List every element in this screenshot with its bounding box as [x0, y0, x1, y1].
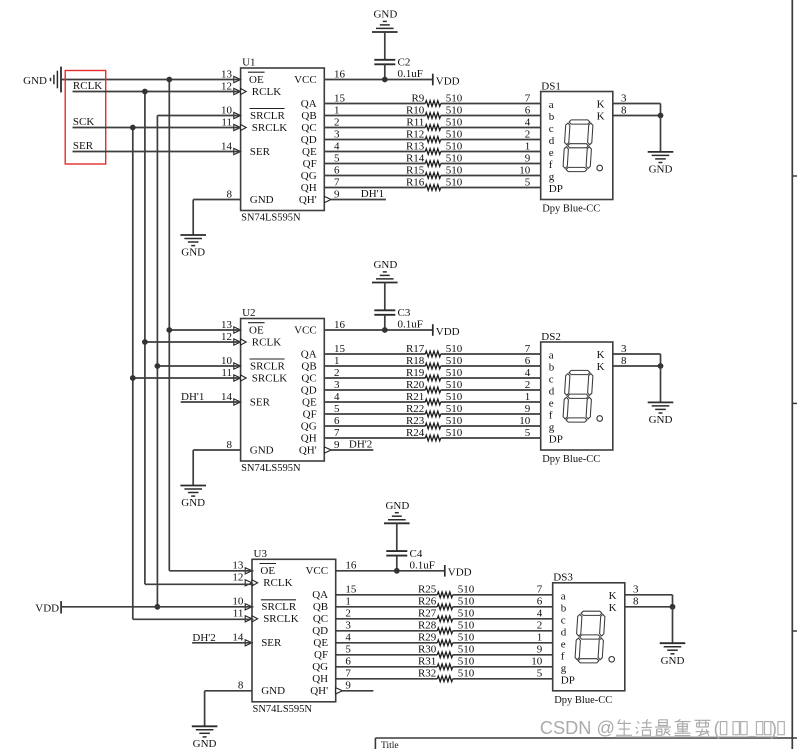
svg-text:Dpy Blue-CC: Dpy Blue-CC — [542, 454, 600, 465]
svg-text:R12: R12 — [406, 128, 424, 140]
svg-text:QE: QE — [302, 146, 317, 158]
svg-text:7: 7 — [334, 176, 340, 188]
svg-text:e: e — [549, 147, 554, 159]
svg-text:C3: C3 — [398, 307, 411, 319]
svg-text:510: 510 — [446, 391, 463, 403]
svg-text:K: K — [609, 602, 617, 614]
svg-text:2: 2 — [537, 620, 543, 632]
svg-text:SRCLR: SRCLR — [250, 110, 286, 122]
svg-text:K: K — [597, 361, 605, 373]
svg-text:Title: Title — [381, 741, 399, 749]
svg-text:U1: U1 — [242, 57, 255, 69]
svg-text:a: a — [561, 590, 566, 602]
svg-text:2: 2 — [345, 608, 351, 620]
svg-text:f: f — [549, 159, 553, 171]
svg-text:OE: OE — [249, 324, 264, 336]
svg-text:1: 1 — [525, 391, 531, 403]
svg-text:GND: GND — [181, 247, 205, 259]
svg-text:RCLK: RCLK — [263, 577, 292, 589]
svg-text:SRCLR: SRCLR — [250, 360, 286, 372]
svg-text:6: 6 — [525, 104, 531, 116]
svg-text:6: 6 — [537, 596, 543, 608]
svg-text:510: 510 — [458, 668, 475, 680]
svg-text:13: 13 — [221, 319, 233, 331]
svg-text:510: 510 — [446, 140, 463, 152]
svg-text:12: 12 — [232, 572, 243, 584]
svg-text:16: 16 — [345, 560, 357, 572]
svg-text:K: K — [597, 349, 605, 361]
svg-text:0.1uF: 0.1uF — [410, 560, 435, 572]
svg-text:QF: QF — [314, 649, 328, 661]
svg-text:6: 6 — [334, 164, 340, 176]
svg-text:QF: QF — [303, 158, 317, 170]
svg-text:1: 1 — [525, 140, 531, 152]
svg-text:9: 9 — [345, 680, 351, 692]
svg-text:RCLK: RCLK — [73, 80, 102, 92]
svg-text:3: 3 — [334, 379, 340, 391]
svg-text:SRCLR: SRCLR — [261, 601, 297, 613]
svg-text:510: 510 — [446, 116, 463, 128]
svg-text:R14: R14 — [406, 152, 425, 164]
svg-text:K: K — [597, 99, 605, 111]
svg-text:RCLK: RCLK — [252, 336, 281, 348]
svg-text:QA: QA — [301, 348, 317, 360]
svg-text:DS2: DS2 — [541, 331, 561, 343]
svg-text:13: 13 — [221, 68, 233, 80]
svg-text:SRCLK: SRCLK — [263, 613, 299, 625]
svg-text:GND: GND — [373, 259, 397, 271]
svg-text:510: 510 — [446, 415, 463, 427]
svg-text:1: 1 — [345, 596, 351, 608]
svg-text:11: 11 — [221, 367, 232, 379]
svg-text:CSDN @: CSDN @ — [540, 718, 615, 738]
svg-text:0.1uF: 0.1uF — [398, 319, 423, 331]
svg-text:510: 510 — [446, 427, 463, 439]
svg-text:DP: DP — [549, 183, 563, 195]
svg-text:QH: QH — [301, 182, 317, 194]
svg-text:DS3: DS3 — [553, 572, 573, 584]
svg-text:GND: GND — [385, 500, 409, 512]
svg-text:C2: C2 — [398, 57, 411, 69]
svg-text:U3: U3 — [254, 548, 268, 560]
svg-text:8: 8 — [227, 439, 233, 451]
svg-text:510: 510 — [458, 632, 475, 644]
svg-text:8: 8 — [621, 104, 627, 116]
svg-text:4: 4 — [525, 367, 531, 379]
svg-text:QF: QF — [303, 408, 317, 420]
svg-text:QA: QA — [301, 98, 317, 110]
svg-text:10: 10 — [221, 104, 233, 116]
svg-text:U2: U2 — [242, 307, 255, 319]
svg-text:9: 9 — [334, 439, 340, 451]
svg-text:R13: R13 — [406, 140, 425, 152]
svg-text:510: 510 — [446, 355, 463, 367]
svg-text:VDD: VDD — [436, 326, 460, 338]
svg-text:b: b — [549, 111, 555, 123]
svg-text:6: 6 — [525, 355, 531, 367]
svg-text:DH'2: DH'2 — [192, 632, 215, 644]
svg-text:15: 15 — [334, 92, 346, 104]
svg-text:10: 10 — [232, 596, 244, 608]
svg-text:QC: QC — [301, 372, 316, 384]
svg-text:Dpy Blue-CC: Dpy Blue-CC — [554, 695, 612, 706]
svg-text:16: 16 — [334, 68, 346, 80]
svg-text:g: g — [549, 422, 555, 434]
svg-text:QH: QH — [301, 432, 317, 444]
svg-text:R10: R10 — [406, 104, 425, 116]
svg-text:QB: QB — [301, 110, 316, 122]
svg-text:510: 510 — [446, 92, 463, 104]
svg-text:3: 3 — [345, 620, 351, 632]
svg-text:e: e — [561, 638, 566, 650]
svg-text:15: 15 — [345, 584, 357, 596]
svg-text:SER: SER — [250, 146, 271, 158]
svg-text:c: c — [549, 374, 554, 386]
svg-text:GND: GND — [23, 75, 47, 87]
svg-text:SN74LS595N: SN74LS595N — [241, 213, 301, 224]
svg-text:13: 13 — [232, 560, 244, 572]
svg-text:e: e — [549, 398, 554, 410]
svg-text:4: 4 — [334, 140, 340, 152]
svg-text:15: 15 — [334, 343, 346, 355]
svg-text:8: 8 — [238, 680, 244, 692]
svg-text:c: c — [549, 123, 554, 135]
svg-text:510: 510 — [446, 176, 463, 188]
svg-text:14: 14 — [221, 140, 233, 152]
svg-text:R19: R19 — [406, 367, 425, 379]
svg-text:1: 1 — [537, 632, 543, 644]
svg-text:510: 510 — [458, 620, 475, 632]
svg-text:QD: QD — [301, 384, 317, 396]
svg-text:R21: R21 — [406, 391, 424, 403]
svg-text:6: 6 — [334, 415, 340, 427]
svg-text:GND: GND — [193, 738, 217, 749]
svg-text:R17: R17 — [406, 343, 425, 355]
svg-text:b: b — [549, 362, 555, 374]
svg-text:510: 510 — [446, 128, 463, 140]
svg-text:DH'2: DH'2 — [349, 439, 372, 451]
svg-text:SRCLK: SRCLK — [252, 122, 288, 134]
svg-text:GND: GND — [649, 414, 673, 426]
svg-text:3: 3 — [621, 343, 627, 355]
svg-text:R30: R30 — [418, 644, 437, 656]
svg-text:5: 5 — [537, 668, 543, 680]
svg-text:SER: SER — [261, 637, 282, 649]
svg-text:5: 5 — [334, 403, 340, 415]
svg-text:10: 10 — [519, 164, 531, 176]
svg-text:R23: R23 — [406, 415, 425, 427]
svg-text:510: 510 — [458, 644, 475, 656]
svg-text:2: 2 — [525, 128, 531, 140]
svg-text:11: 11 — [221, 116, 232, 128]
svg-text:2: 2 — [334, 116, 340, 128]
svg-text:SCK: SCK — [73, 116, 94, 128]
svg-text:R28: R28 — [418, 620, 437, 632]
svg-text:SER: SER — [73, 140, 94, 152]
svg-text:3: 3 — [334, 128, 340, 140]
svg-text:510: 510 — [446, 379, 463, 391]
svg-text:7: 7 — [537, 584, 543, 596]
svg-text:GND: GND — [250, 444, 274, 456]
svg-text:VCC: VCC — [294, 324, 317, 336]
svg-text:4: 4 — [537, 608, 543, 620]
svg-text:510: 510 — [458, 656, 475, 668]
svg-text:VCC: VCC — [305, 565, 328, 577]
svg-text:QG: QG — [301, 420, 317, 432]
svg-text:510: 510 — [458, 584, 475, 596]
svg-text:f: f — [549, 410, 553, 422]
svg-text:(: ( — [714, 718, 720, 738]
svg-text:DS1: DS1 — [541, 80, 561, 92]
svg-text:4: 4 — [525, 116, 531, 128]
svg-text:SRCLK: SRCLK — [252, 372, 288, 384]
svg-text:d: d — [561, 626, 567, 638]
svg-text:DP: DP — [549, 434, 563, 446]
svg-text:9: 9 — [537, 644, 543, 656]
svg-text:SN74LS595N: SN74LS595N — [241, 463, 301, 474]
svg-text:R31: R31 — [418, 656, 436, 668]
svg-text:QG: QG — [312, 661, 328, 673]
svg-text:R25: R25 — [418, 584, 437, 596]
svg-text:R24: R24 — [406, 427, 425, 439]
svg-text:14: 14 — [221, 391, 233, 403]
svg-text:14: 14 — [232, 632, 244, 644]
svg-text:VCC: VCC — [294, 74, 317, 86]
svg-text:): ) — [771, 718, 777, 738]
svg-text:GND: GND — [649, 164, 673, 176]
svg-text:DP: DP — [561, 674, 575, 686]
svg-text:R15: R15 — [406, 164, 425, 176]
svg-text:5: 5 — [334, 152, 340, 164]
svg-text:QD: QD — [301, 134, 317, 146]
svg-text:510: 510 — [458, 608, 475, 620]
svg-text:QE: QE — [313, 637, 328, 649]
svg-text:DH'1: DH'1 — [361, 188, 384, 200]
svg-text:SN74LS595N: SN74LS595N — [253, 704, 313, 715]
svg-text:GND: GND — [373, 9, 397, 21]
svg-text:DH'1: DH'1 — [181, 391, 204, 403]
svg-text:8: 8 — [227, 188, 233, 200]
svg-text:f: f — [561, 650, 565, 662]
svg-text:b: b — [561, 602, 567, 614]
svg-text:R29: R29 — [418, 632, 437, 644]
svg-text:QH': QH' — [299, 444, 317, 456]
svg-text:R18: R18 — [406, 355, 425, 367]
svg-text:510: 510 — [446, 343, 463, 355]
svg-text:QB: QB — [301, 360, 316, 372]
svg-text:7: 7 — [345, 668, 351, 680]
svg-text:a: a — [549, 350, 554, 362]
svg-text:10: 10 — [221, 355, 233, 367]
svg-text:3: 3 — [621, 92, 627, 104]
svg-text:12: 12 — [221, 80, 232, 92]
svg-text:510: 510 — [446, 367, 463, 379]
svg-text:R22: R22 — [406, 403, 424, 415]
svg-text:GND: GND — [250, 194, 274, 206]
svg-text:VDD: VDD — [35, 602, 59, 614]
svg-text:510: 510 — [458, 596, 475, 608]
svg-text:K: K — [597, 111, 605, 123]
svg-text:16: 16 — [334, 319, 346, 331]
svg-text:1: 1 — [334, 355, 340, 367]
svg-text:g: g — [549, 171, 555, 183]
svg-text:5: 5 — [525, 427, 531, 439]
svg-text:5: 5 — [525, 176, 531, 188]
svg-text:QG: QG — [301, 170, 317, 182]
svg-text:11: 11 — [233, 608, 244, 620]
svg-text:g: g — [561, 662, 567, 674]
svg-text:R27: R27 — [418, 608, 437, 620]
svg-text:c: c — [561, 614, 566, 626]
svg-text:d: d — [549, 135, 555, 147]
svg-text:8: 8 — [621, 355, 627, 367]
svg-text:9: 9 — [525, 152, 531, 164]
svg-text:R20: R20 — [406, 379, 425, 391]
svg-text:VDD: VDD — [436, 75, 460, 87]
svg-text:R11: R11 — [406, 116, 424, 128]
svg-text:7: 7 — [334, 427, 340, 439]
svg-text:GND: GND — [181, 497, 205, 509]
svg-text:4: 4 — [334, 391, 340, 403]
svg-text:C4: C4 — [410, 548, 423, 560]
svg-text:QH: QH — [312, 673, 328, 685]
svg-text:QE: QE — [302, 396, 317, 408]
svg-text:1: 1 — [334, 104, 340, 116]
svg-text:2: 2 — [525, 379, 531, 391]
svg-text:3: 3 — [633, 584, 639, 596]
svg-text:6: 6 — [345, 656, 351, 668]
svg-text:10: 10 — [531, 656, 543, 668]
svg-text:QC: QC — [301, 122, 316, 134]
svg-text:GND: GND — [261, 685, 285, 697]
svg-text:Dpy Blue-CC: Dpy Blue-CC — [542, 204, 600, 215]
svg-text:QB: QB — [313, 601, 328, 613]
svg-text:VDD: VDD — [448, 567, 472, 579]
svg-text:2: 2 — [334, 367, 340, 379]
svg-text:7: 7 — [525, 92, 531, 104]
svg-text:GND: GND — [661, 655, 685, 667]
svg-text:QD: QD — [312, 625, 328, 637]
svg-text:R32: R32 — [418, 668, 436, 680]
svg-text:8: 8 — [633, 596, 639, 608]
svg-text:R16: R16 — [406, 176, 425, 188]
svg-text:510: 510 — [446, 104, 463, 116]
svg-text:RCLK: RCLK — [252, 86, 281, 98]
svg-text:7: 7 — [525, 343, 531, 355]
svg-text:0.1uF: 0.1uF — [398, 68, 423, 80]
svg-text:9: 9 — [525, 403, 531, 415]
svg-text:QC: QC — [313, 613, 328, 625]
svg-text:QA: QA — [312, 589, 328, 601]
svg-text:5: 5 — [345, 644, 351, 656]
svg-text:4: 4 — [345, 632, 351, 644]
svg-text:R9: R9 — [411, 92, 424, 104]
svg-text:9: 9 — [334, 188, 340, 200]
svg-text:QH': QH' — [299, 194, 317, 206]
svg-text:510: 510 — [446, 152, 463, 164]
svg-text:QH': QH' — [310, 685, 328, 697]
svg-text:510: 510 — [446, 403, 463, 415]
svg-text:R26: R26 — [418, 596, 437, 608]
svg-text:a: a — [549, 99, 554, 111]
svg-text:OE: OE — [260, 565, 275, 577]
svg-text:K: K — [609, 590, 617, 602]
svg-text:12: 12 — [221, 331, 232, 343]
svg-text:10: 10 — [519, 415, 531, 427]
svg-text:SER: SER — [250, 396, 271, 408]
svg-text:d: d — [549, 386, 555, 398]
svg-text:510: 510 — [446, 164, 463, 176]
svg-text:OE: OE — [249, 74, 264, 86]
